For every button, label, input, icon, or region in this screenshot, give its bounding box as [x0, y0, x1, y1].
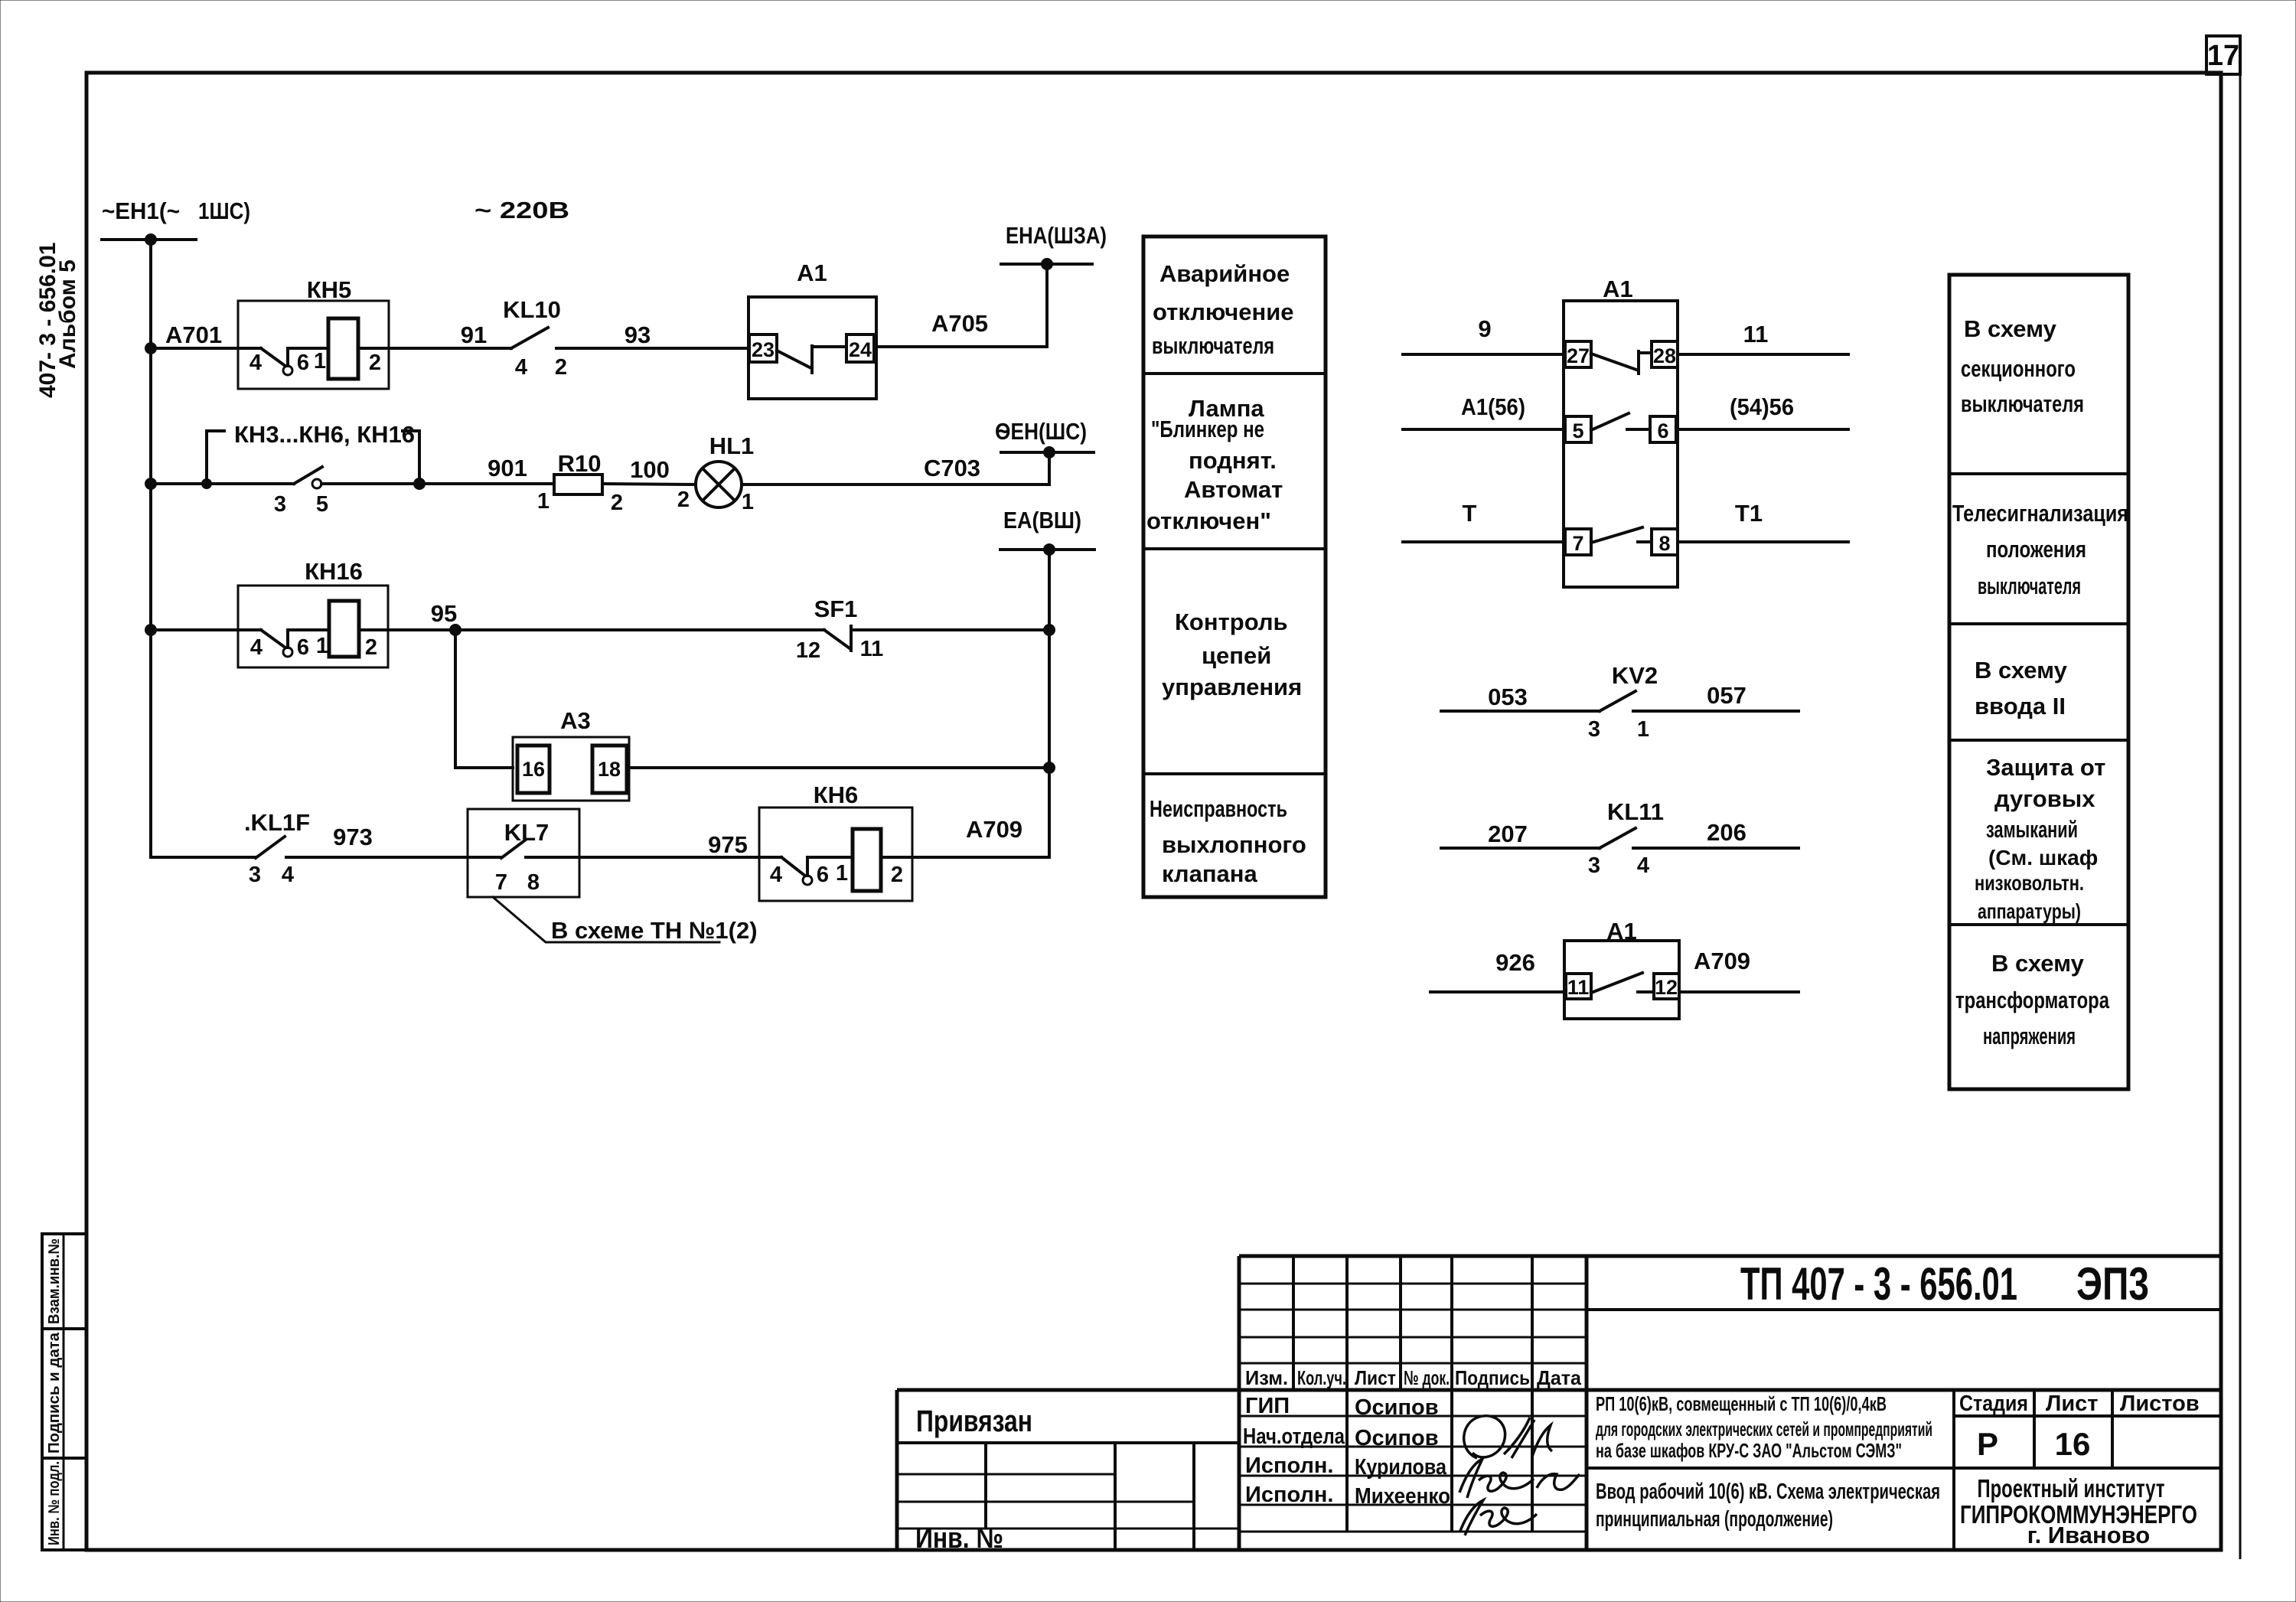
wire 9	[1403, 353, 1564, 356]
svg-text:В схеме ТН №1(2): В схеме ТН №1(2)	[551, 917, 758, 944]
svg-text:Изм.: Изм.	[1245, 1366, 1288, 1389]
svg-text:5: 5	[316, 492, 328, 517]
svg-text:6: 6	[1657, 419, 1668, 442]
wire 95	[388, 628, 824, 631]
svg-text:1: 1	[316, 634, 328, 658]
svg-text:В схему: В схему	[1964, 315, 2057, 342]
svg-text:11: 11	[1567, 976, 1590, 999]
svg-text:KL10: KL10	[503, 296, 561, 323]
lamp HL1	[677, 432, 754, 514]
svg-text:~ЕН1(~: ~ЕН1(~	[102, 197, 180, 224]
wire trunk EA vertical	[912, 550, 1049, 857]
svg-text:91: 91	[461, 321, 487, 348]
svg-text:206: 206	[1707, 819, 1746, 846]
svg-text:12: 12	[1655, 976, 1678, 999]
outer sheet edge line right	[2239, 36, 2242, 1559]
node EA(ВШ)	[1000, 507, 1094, 556]
svg-text:975: 975	[708, 831, 748, 858]
svg-text:А3: А3	[560, 707, 591, 734]
svg-text:Автомат: Автомат	[1184, 476, 1283, 503]
svg-text:KL11: KL11	[1607, 798, 1664, 825]
svg-text:Проектный институт: Проектный институт	[1978, 1474, 2165, 1502]
TITLEBLOCK	[897, 1256, 2221, 1555]
svg-text:Телесигнализация: Телесигнализация	[1952, 500, 2128, 527]
svg-text:КН16: КН16	[305, 558, 363, 585]
wire 11	[1678, 353, 1848, 356]
title doc number ТП 407-3-656.01 ЭП3	[1740, 1258, 2149, 1310]
svg-text:Нач.отдела: Нач.отдела	[1243, 1424, 1345, 1449]
svg-text:А701: А701	[165, 321, 222, 348]
svg-text:отключение: отключение	[1153, 299, 1294, 325]
svg-text:Ввод рабочий 10(6) кВ. Схема э: Ввод рабочий 10(6) кВ. Схема электрическ…	[1596, 1480, 1940, 1504]
svg-text:А705: А705	[931, 310, 988, 337]
junction trunk row3	[1043, 624, 1055, 636]
relay block A1 contact 23-24	[748, 259, 876, 399]
stamp box Взам.инв.№	[42, 1234, 86, 1329]
svg-text:дуговых: дуговых	[1994, 785, 2095, 812]
junction bus top	[145, 233, 157, 246]
wire row2 from bus	[151, 482, 294, 485]
svg-text:18: 18	[598, 758, 621, 781]
svg-text:А709: А709	[966, 816, 1022, 843]
svg-text:5: 5	[1572, 419, 1583, 442]
svg-text:1: 1	[836, 861, 848, 886]
note В схему трансформатора напряжения	[1955, 950, 2110, 1049]
wire 91	[389, 347, 511, 350]
svg-text:11: 11	[860, 637, 884, 661]
svg-text:2: 2	[891, 863, 903, 887]
wire row3 from bus	[151, 628, 238, 631]
svg-text:3: 3	[274, 492, 286, 517]
approval rows	[1239, 1394, 1587, 1532]
svg-text:28: 28	[1653, 344, 1676, 367]
svg-text:Дата: Дата	[1537, 1366, 1582, 1389]
signature Осипов	[1464, 1416, 1552, 1458]
svg-text:12: 12	[796, 638, 820, 663]
junction bus row1	[145, 342, 157, 354]
middle annotation column box	[1143, 237, 1326, 897]
svg-text:отключен": отключен"	[1146, 507, 1271, 534]
svg-text:А1: А1	[1603, 276, 1633, 302]
svg-text:HL1: HL1	[709, 432, 755, 459]
svg-text:926: 926	[1495, 949, 1535, 976]
svg-text:замыканий: замыканий	[1986, 816, 2078, 843]
signature Курилова	[1459, 1459, 1580, 1498]
note Аварийное отключение выключателя	[1152, 260, 1294, 359]
svg-text:ГИП: ГИП	[1245, 1394, 1290, 1418]
junction trunk A3	[1043, 762, 1055, 774]
svg-text:Т: Т	[1463, 500, 1477, 527]
svg-text:207: 207	[1488, 821, 1528, 847]
note Защита от дуговых замыканий	[1975, 754, 2105, 923]
svg-text:24: 24	[849, 338, 872, 361]
svg-text:А1(56): А1(56)	[1461, 393, 1525, 420]
svg-text:Подпись: Подпись	[1455, 1366, 1530, 1389]
wire 973	[286, 856, 468, 859]
svg-text:2: 2	[369, 351, 381, 375]
svg-text:4: 4	[770, 863, 782, 887]
wire (54)56	[1676, 428, 1848, 431]
title block outline	[1239, 1255, 2221, 1258]
contact A1 7-8	[1565, 527, 1678, 555]
svg-text:7: 7	[495, 870, 507, 895]
svg-text:Осипов: Осипов	[1355, 1426, 1439, 1450]
node EHA(ШЗА)	[1001, 222, 1107, 270]
svg-text:17: 17	[2207, 40, 2239, 72]
wire 975	[579, 856, 759, 859]
svg-text:Кол.уч.: Кол.уч.	[1297, 1366, 1346, 1389]
stamp box Подпись и дата	[42, 1329, 86, 1458]
svg-text:053: 053	[1488, 684, 1528, 710]
svg-text:управления: управления	[1162, 674, 1302, 700]
svg-text:Стадия: Стадия	[1959, 1392, 2028, 1416]
svg-text:100: 100	[630, 456, 670, 483]
wire 100	[602, 484, 696, 485]
wire C703	[742, 452, 1049, 485]
CIRCUIT	[102, 197, 1107, 944]
contact KH3..KH16 pins 3-5	[274, 467, 328, 517]
svg-text:KV2: KV2	[1612, 662, 1658, 689]
contact A1 5-6	[1565, 413, 1676, 442]
contact KL11 pins 3-4	[1441, 798, 1799, 878]
svg-text:27: 27	[1567, 344, 1590, 367]
relay KH6	[759, 781, 912, 901]
svg-text:клапана: клапана	[1162, 860, 1258, 887]
svg-text:поднят.: поднят.	[1189, 447, 1277, 474]
svg-text:Осипов: Осипов	[1355, 1395, 1439, 1420]
svg-text:на базе шкафов КРУ-С ЗАО "Альс: на базе шкафов КРУ-С ЗАО "Альстом СЭМЗ"	[1596, 1439, 1902, 1462]
svg-text:выхлопного: выхлопного	[1162, 831, 1306, 858]
svg-text:Лист: Лист	[2046, 1392, 2099, 1416]
svg-text:КН6: КН6	[814, 781, 859, 808]
stamp box Инв.№ подл.	[42, 1458, 86, 1550]
svg-text:выключателя: выключателя	[1961, 390, 2084, 417]
svg-text:КН3...КН6, КН16: КН3...КН6, КН16	[234, 421, 415, 448]
svg-text:3: 3	[1588, 853, 1600, 878]
revision table grid	[1239, 1256, 1587, 1532]
svg-text:~ 220В: ~ 220В	[475, 197, 569, 223]
svg-text:4: 4	[515, 355, 527, 380]
svg-text:Исполн.: Исполн.	[1245, 1454, 1333, 1478]
resistor R10	[537, 450, 623, 515]
svg-text:Лист: Лист	[1355, 1366, 1396, 1389]
signature Михеенко	[1460, 1500, 1537, 1535]
svg-text:11: 11	[1743, 321, 1769, 347]
svg-text:1ШС): 1ШС)	[198, 197, 250, 224]
svg-text:Михеенко: Михеенко	[1355, 1484, 1450, 1509]
svg-text:93: 93	[625, 321, 651, 348]
svg-text:Подпись и дата: Подпись и дата	[46, 1332, 63, 1454]
node group bracket right	[403, 431, 426, 490]
right annotation column box	[1949, 275, 2128, 1089]
svg-text:(См. шкаф: (См. шкаф	[1988, 846, 2098, 870]
svg-text:цепей: цепей	[1202, 642, 1271, 669]
contact KL1F pins 3-4	[244, 809, 310, 887]
wire row3 to trunk	[851, 628, 1049, 631]
sheet number box 17	[2206, 36, 2240, 74]
wire row1 A701	[151, 347, 238, 350]
svg-text:Контроль: Контроль	[1175, 608, 1288, 635]
svg-text:ЭП3: ЭП3	[2076, 1258, 2149, 1310]
svg-text:Исполн.: Исполн.	[1245, 1483, 1333, 1507]
contact KL10	[503, 296, 748, 380]
institute cell	[1960, 1474, 2197, 1548]
svg-text:положения: положения	[1986, 536, 2086, 563]
svg-text:"Блинкер не: "Блинкер не	[1151, 416, 1264, 442]
node group bracket left	[201, 431, 224, 489]
svg-text:№ док.: № док.	[1404, 1366, 1450, 1389]
svg-text:Альбом 5: Альбом 5	[55, 259, 80, 369]
svg-text:4: 4	[250, 635, 263, 660]
sheet title cell	[1587, 1468, 2221, 1550]
wire bus vertical	[151, 240, 256, 857]
left cell Привязан	[897, 1405, 1239, 1555]
bus EH1 top segment	[102, 238, 196, 241]
svg-text:1: 1	[537, 489, 550, 514]
svg-text:Р: Р	[1977, 1426, 1998, 1462]
svg-text:Инв. № подл.: Инв. № подл.	[46, 1461, 63, 1545]
contact KV2 pins 3-1	[1441, 662, 1799, 742]
svg-text:4: 4	[1637, 853, 1649, 878]
relay block A1 contact 11-12	[1430, 918, 1799, 1019]
note Лампа Блинкер не поднят. Автомат отключен	[1146, 395, 1283, 534]
wire A3 to trunk	[629, 766, 1049, 769]
wire A705	[876, 264, 1047, 347]
svg-text:8: 8	[527, 870, 540, 895]
svg-text:ѲЕН(ШС): ѲЕН(ШС)	[995, 418, 1087, 445]
svg-text:2: 2	[611, 491, 623, 515]
svg-text:г. Иваново: г. Иваново	[2027, 1522, 2150, 1548]
svg-text:Защита от: Защита от	[1986, 754, 2105, 781]
svg-text:В схему: В схему	[1991, 950, 2085, 977]
svg-text:секционного: секционного	[1961, 355, 2076, 382]
svg-text:РП 10(6)кВ, совмещенный с ТП 1: РП 10(6)кВ, совмещенный с ТП 10(6)/0,4кВ	[1596, 1392, 1887, 1415]
svg-text:С703: С703	[924, 455, 980, 481]
svg-text:4: 4	[282, 863, 294, 887]
svg-text:6: 6	[297, 351, 309, 375]
svg-text:Аварийное: Аварийное	[1159, 260, 1290, 287]
relay KH5	[238, 276, 389, 389]
note Телесигнализация положения выключателя	[1952, 500, 2128, 599]
connector A3 16-18	[513, 707, 629, 801]
svg-text:Привязан: Привязан	[916, 1405, 1032, 1438]
svg-text:Курилова: Курилова	[1355, 1455, 1447, 1480]
wire A1(56)	[1403, 428, 1564, 431]
svg-text:16: 16	[522, 758, 545, 781]
svg-text:принципиальная (продолжение): принципиальная (продолжение)	[1596, 1507, 1833, 1532]
svg-text:1: 1	[1637, 717, 1649, 742]
svg-text:7: 7	[1572, 532, 1583, 555]
svg-text:16: 16	[2055, 1426, 2091, 1462]
svg-text:(54)56: (54)56	[1730, 393, 1794, 420]
junction bus row3	[145, 624, 157, 636]
project description cell	[1596, 1392, 1932, 1462]
junction 95	[449, 624, 461, 636]
svg-text:R10: R10	[558, 450, 602, 477]
svg-text:95: 95	[431, 600, 457, 627]
relay contact KL7 pins 7-8	[468, 809, 579, 897]
note В схему ввода II	[1975, 657, 2068, 719]
svg-text:А1: А1	[797, 259, 827, 286]
stage cells Стадия Лист Листов	[1954, 1390, 2221, 1468]
svg-text:SF1: SF1	[814, 595, 858, 622]
svg-text:В схему: В схему	[1975, 657, 2068, 684]
svg-text:ЕА(ВШ): ЕА(ВШ)	[1003, 507, 1081, 533]
svg-text:9: 9	[1478, 315, 1491, 342]
note Контроль цепей управления	[1162, 608, 1302, 700]
svg-text:3: 3	[249, 863, 261, 887]
contact A1 27-28	[1565, 341, 1678, 374]
wire A3 branch	[455, 630, 513, 768]
svg-text:6: 6	[817, 863, 829, 887]
svg-text:ЕНА(ШЗА): ЕНА(ШЗА)	[1006, 222, 1107, 249]
svg-text:низковольтн.: низковольтн.	[1975, 871, 2084, 895]
svg-text:для городских электрических се: для городских электрических сетей и пром…	[1596, 1418, 1932, 1440]
svg-text:выключателя: выключателя	[1978, 573, 2081, 599]
svg-text:4: 4	[249, 351, 262, 375]
svg-text:KL7: KL7	[504, 819, 550, 846]
svg-text:3: 3	[1588, 717, 1600, 742]
svg-text:А709: А709	[1694, 948, 1750, 974]
svg-text:057: 057	[1707, 682, 1746, 709]
LEFTMARGIN	[35, 243, 86, 1550]
relay block A1 telesignal contacts	[1564, 276, 1678, 587]
svg-text:6: 6	[297, 635, 309, 660]
RIGHTCIRCUIT	[1403, 276, 1848, 1019]
svg-text:Листов: Листов	[2120, 1392, 2200, 1416]
svg-text:2: 2	[555, 355, 567, 380]
RIGHTCOL	[1949, 275, 2128, 1089]
svg-text:КН5: КН5	[307, 276, 352, 303]
svg-text:1: 1	[742, 490, 754, 514]
svg-text:выключателя: выключателя	[1152, 332, 1274, 359]
svg-text:Т1: Т1	[1735, 500, 1763, 527]
svg-text:Неисправность: Неисправность	[1150, 795, 1287, 822]
contact SF1 pins 12-11	[796, 595, 883, 663]
svg-text:2: 2	[677, 488, 690, 512]
svg-text:23: 23	[752, 338, 775, 361]
svg-text:.KL1F: .KL1F	[244, 809, 310, 836]
wire 901	[321, 482, 554, 485]
leader В схеме ТН №1(2)	[493, 897, 758, 944]
svg-text:2: 2	[365, 635, 377, 660]
svg-text:ТП 407 - 3 - 656.01: ТП 407 - 3 - 656.01	[1740, 1258, 2017, 1310]
svg-text:ввода II: ввода II	[1975, 693, 2066, 719]
MIDCOL	[1143, 237, 1326, 897]
note Неисправность выхлопного клапана	[1150, 795, 1306, 887]
svg-text:аппаратуры): аппаратуры)	[1978, 899, 2081, 923]
wire T	[1403, 540, 1564, 543]
svg-text:901: 901	[488, 455, 527, 481]
svg-text:напряжения: напряжения	[1983, 1023, 2076, 1049]
svg-text:Взам.инв.№: Взам.инв.№	[46, 1238, 63, 1324]
node ѲЕН(ШС)	[995, 418, 1094, 458]
note В схему секционного выключателя	[1961, 315, 2084, 417]
svg-text:973: 973	[333, 824, 373, 850]
svg-text:8: 8	[1658, 532, 1670, 555]
svg-text:трансформатора: трансформатора	[1955, 987, 2110, 1013]
relay KH16	[238, 558, 388, 667]
wire T1	[1678, 540, 1848, 543]
junction bus row2	[145, 478, 157, 490]
svg-text:1: 1	[314, 349, 326, 374]
svg-text:Инв. №: Инв. №	[915, 1522, 1003, 1555]
